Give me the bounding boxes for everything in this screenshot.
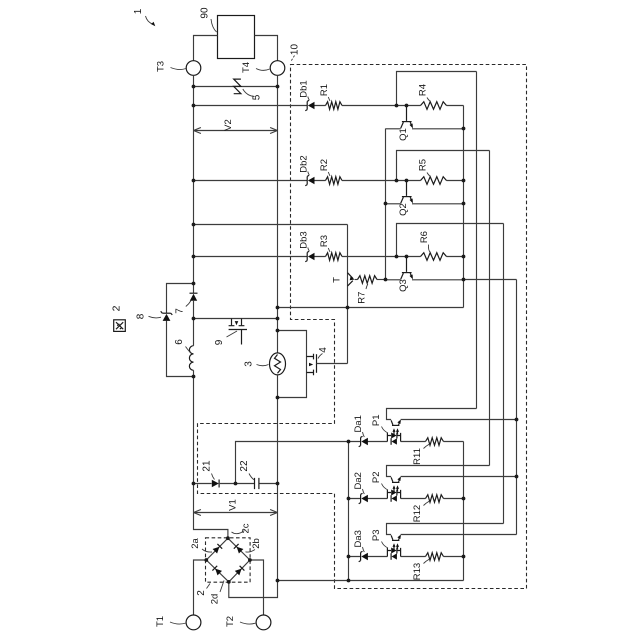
- svg-text:R5: R5: [418, 159, 429, 171]
- wire T3 to box 90: [194, 36, 218, 61]
- svg-text:8: 8: [136, 313, 147, 319]
- svg-text:R13: R13: [412, 563, 423, 580]
- wire rail B lower: [229, 375, 278, 598]
- svg-text:21: 21: [202, 460, 213, 472]
- zener diode Da1: [361, 438, 368, 445]
- dimension arrow V2: [194, 130, 278, 132]
- wire stage1 top loop: [397, 72, 477, 106]
- svg-text:T1: T1: [155, 616, 166, 627]
- wire rung y86: [194, 86, 278, 88]
- zener diode 8: [163, 314, 171, 321]
- varistor 5: [234, 79, 241, 94]
- svg-text:Db1: Db1: [299, 80, 310, 97]
- wire loop around 3: [278, 331, 307, 398]
- resistor R6: [421, 253, 447, 261]
- wire stage3 top loop: [397, 224, 504, 257]
- svg-text:1: 1: [133, 8, 144, 14]
- wire Db1 row: [194, 105, 464, 107]
- wire Q2 emitter: [412, 203, 464, 205]
- wire branch 8: [167, 284, 194, 377]
- optocoupler P2 light arrows: [394, 487, 398, 492]
- svg-text:Db3: Db3: [299, 231, 310, 248]
- svg-text:T4: T4: [241, 62, 252, 73]
- inductor 6: [189, 346, 193, 371]
- junction dots bridge: [226, 536, 230, 540]
- MOSFET 4: [307, 357, 314, 373]
- wire rail A lower: [194, 370, 228, 538]
- bridge diode 2c-side (lower-left): [215, 569, 222, 576]
- junction dots rail B: [276, 85, 280, 89]
- optocoupler P1 light arrows: [394, 430, 398, 435]
- wire Da1 row: [349, 441, 464, 443]
- wire Q2 collector: [386, 203, 401, 205]
- svg-text:Da3: Da3: [353, 530, 364, 547]
- dashed enclosure box 10: [198, 65, 527, 589]
- wire P2 emitter: [401, 476, 517, 478]
- svg-text:T2: T2: [225, 616, 236, 627]
- svg-text:2b: 2b: [251, 538, 262, 549]
- svg-text:2: 2: [111, 305, 123, 311]
- wire Q1 collector: [386, 128, 401, 130]
- wire P1 emitter: [401, 419, 517, 421]
- transistor Q1: [406, 106, 408, 121]
- svg-text:V2: V2: [223, 119, 234, 131]
- junction dots rail A: [192, 85, 196, 89]
- wire bridge diamond: [206, 538, 250, 582]
- wire rung y318.7 (MOSFET 9 row): [194, 318, 278, 320]
- resistor R5: [421, 177, 447, 185]
- wire rail B upper: [277, 75, 279, 353]
- wire Da bus vertical: [348, 442, 350, 581]
- resistor R11: [426, 438, 444, 446]
- wire T to R7: [355, 279, 358, 281]
- svg-text:2: 2: [196, 590, 207, 596]
- svg-text:R4: R4: [418, 84, 429, 96]
- svg-text:7: 7: [175, 308, 186, 314]
- svg-text:R7: R7: [357, 292, 368, 304]
- wire Q3 emitter: [412, 279, 464, 281]
- zener diode Db3: [308, 253, 315, 260]
- wire T2 lead: [250, 560, 264, 615]
- optocoupler P3 phototransistor: [392, 539, 399, 541]
- wire long vertical Q3-emitter to P cells: [516, 280, 518, 535]
- optocoupler P1 phototransistor: [392, 424, 399, 426]
- svg-text:Q3: Q3: [398, 279, 409, 292]
- zener diode Db2: [308, 177, 315, 184]
- bridge diode 2d-side (lower-right): [235, 569, 242, 576]
- svg-text:R2: R2: [319, 159, 330, 171]
- svg-text:9: 9: [214, 339, 225, 345]
- wire P1 collector: [387, 409, 477, 420]
- optocoupler P2 phototransistor: [392, 481, 399, 483]
- wire long vertical stage3 to P3: [503, 224, 505, 524]
- dimension arrow V1: [194, 512, 278, 514]
- wire T1 lead: [194, 560, 207, 615]
- svg-text:10: 10: [290, 44, 301, 56]
- resistor R12: [426, 495, 444, 503]
- wire P3 emitter: [401, 534, 517, 536]
- wire R11-R13 bus vertical: [463, 442, 465, 581]
- svg-text:V1: V1: [228, 499, 239, 511]
- zener diode Da3: [361, 553, 368, 560]
- wire Q3 emitter extension: [464, 279, 517, 281]
- optocoupler P3 LED pair: [387, 548, 400, 557]
- wire rung to T base: [194, 224, 348, 226]
- svg-text:P2: P2: [371, 471, 382, 483]
- terminal T3: [186, 61, 201, 76]
- lamp 3 (oval with zigzag): [270, 353, 286, 375]
- svg-text:22: 22: [239, 460, 250, 472]
- wire Q1 emitter: [412, 128, 464, 130]
- rail from T3 (wire): [193, 75, 195, 293]
- component box 90: [218, 16, 255, 59]
- svg-text:Q2: Q2: [398, 203, 409, 216]
- wire R7 to bus: [377, 279, 386, 281]
- wire Db3 row: [194, 256, 464, 258]
- wire T4 to box 90: [255, 36, 278, 61]
- svg-text:2a: 2a: [190, 538, 201, 549]
- svg-text:Da2: Da2: [353, 472, 364, 489]
- transistor Q3: [406, 257, 408, 272]
- svg-text:T3: T3: [156, 61, 167, 72]
- zener diode Da2: [361, 495, 368, 502]
- wire long vertical stage1 to P1: [476, 72, 478, 409]
- dashed box around bridge 2: [206, 538, 251, 582]
- svg-text:R6: R6: [419, 231, 430, 243]
- wire vertical bus left of Q: [385, 129, 387, 280]
- wire long vertical stage2 to P2: [489, 151, 491, 466]
- svg-text:Q1: Q1: [398, 128, 409, 141]
- optocoupler P2 LED pair: [387, 490, 400, 499]
- svg-text:R11: R11: [412, 448, 423, 465]
- svg-text:R1: R1: [319, 84, 330, 96]
- wire Q3 collector: [386, 279, 401, 281]
- MOSFET 9: [232, 319, 242, 326]
- svg-text:R3: R3: [319, 235, 330, 247]
- wire stage2 top loop: [397, 151, 490, 181]
- wire Da3 row: [349, 556, 464, 558]
- wire Db2 row: [194, 180, 464, 182]
- wire rail A mid: [193, 301, 195, 346]
- resistor R1: [326, 102, 343, 110]
- svg-text:4: 4: [318, 347, 329, 353]
- diode 21: [212, 480, 219, 487]
- diode 7: [190, 294, 197, 301]
- svg-text:Da1: Da1: [353, 415, 364, 432]
- svg-text:6: 6: [174, 339, 185, 345]
- junction dots lower section: [234, 482, 238, 486]
- svg-text:90: 90: [200, 7, 211, 19]
- optocoupler P3 light arrows: [394, 545, 398, 550]
- resistor R13: [426, 553, 444, 561]
- terminal T4: [270, 61, 285, 76]
- svg-text:2d: 2d: [210, 594, 221, 605]
- wire Da2 row: [349, 498, 464, 500]
- wire P2 collector: [387, 466, 490, 477]
- wire MOSFET 4 gate: [317, 363, 348, 365]
- wire vertical bus right of Q: [463, 106, 465, 308]
- wire T/gate vertical: [347, 225, 349, 364]
- wire bottom bus: [278, 580, 464, 582]
- svg-text:P3: P3: [371, 529, 382, 541]
- zener diode Db1: [308, 102, 315, 109]
- svg-text:3: 3: [244, 361, 255, 367]
- capacitor 22: [255, 478, 259, 489]
- resistor R7: [358, 276, 378, 284]
- bridge diode 2b (upper-right): [237, 547, 244, 554]
- terminal T1: [186, 615, 201, 630]
- bridge diode 2a (upper-left): [213, 547, 220, 554]
- terminal T2: [256, 615, 271, 630]
- wire rung y307.7: [278, 307, 464, 309]
- wire row 21-22: [194, 483, 278, 485]
- svg-text:5: 5: [252, 94, 263, 100]
- svg-text:P1: P1: [371, 414, 382, 426]
- label Fig 2 (kanji zu in box): [114, 320, 126, 332]
- svg-text:R12: R12: [412, 505, 423, 522]
- svg-text:Db2: Db2: [299, 155, 310, 172]
- wire node 21/22 up to Da rows: [236, 442, 349, 484]
- transistor Q2: [406, 181, 408, 196]
- optocoupler P1 LED pair: [387, 433, 400, 442]
- resistor R3: [326, 253, 343, 261]
- junction dots stage rows: [395, 104, 399, 108]
- wire P3 collector: [387, 524, 504, 535]
- transistor T: [348, 273, 353, 279]
- resistor R4: [421, 102, 447, 110]
- svg-text:T: T: [332, 277, 343, 283]
- resistor R2: [326, 177, 343, 185]
